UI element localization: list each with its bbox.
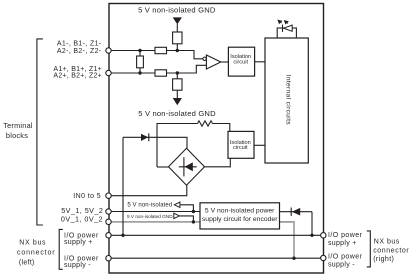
svg-text:supply -: supply - [328, 262, 355, 269]
svg-text:NX bus: NX bus [19, 239, 46, 246]
svg-text:connector: connector [17, 250, 55, 257]
svg-text:IN0 to 5: IN0 to 5 [73, 193, 101, 200]
svg-text:I/O power: I/O power [328, 232, 363, 239]
svg-text:A2-, B2-, Z2-: A2-, B2-, Z2- [57, 48, 102, 55]
svg-text:supply +: supply + [328, 240, 357, 247]
svg-text:supply +: supply + [64, 239, 93, 246]
svg-text:Terminal: Terminal [3, 121, 33, 130]
svg-text:A2+, B2+, Z2+: A2+, B2+, Z2+ [53, 73, 102, 80]
svg-text:5 V non-isolated GND: 5 V non-isolated GND [127, 214, 173, 219]
svg-text:Internal circuits: Internal circuits [284, 75, 291, 126]
svg-text:5 V non-isolated power: 5 V non-isolated power [205, 208, 275, 215]
svg-text:(left): (left) [19, 259, 35, 266]
svg-text:connector: connector [373, 247, 409, 254]
svg-text:(right): (right) [373, 256, 394, 263]
svg-text:5 V non-isolated: 5 V non-isolated [127, 203, 172, 209]
svg-text:supply -: supply - [64, 262, 91, 269]
svg-text:circuit: circuit [233, 60, 248, 66]
svg-text:NX bus: NX bus [374, 239, 400, 246]
svg-text:A1-, B1-, Z1-: A1-, B1-, Z1- [57, 41, 102, 48]
svg-text:blocks: blocks [6, 131, 28, 140]
svg-text:I/O power: I/O power [328, 254, 363, 261]
svg-text:circuit: circuit [233, 145, 248, 151]
svg-text:0V_1, 0V_2: 0V_1, 0V_2 [61, 214, 103, 223]
svg-text:5 V non-isolated GND: 5 V non-isolated GND [138, 109, 216, 118]
svg-text:supply circuit for encoder: supply circuit for encoder [202, 216, 278, 223]
svg-text:5 V non-isolated GND: 5 V non-isolated GND [138, 6, 216, 15]
